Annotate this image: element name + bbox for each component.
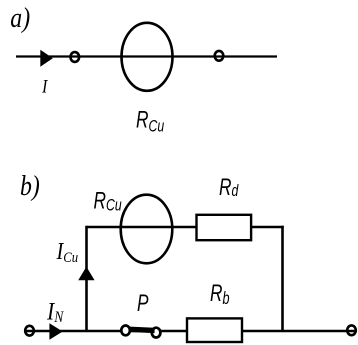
svg-text:a): a) [10, 2, 30, 33]
svg-text:P: P [137, 290, 149, 316]
svg-text:b): b) [20, 170, 40, 201]
svg-text:I: I [41, 75, 48, 97]
